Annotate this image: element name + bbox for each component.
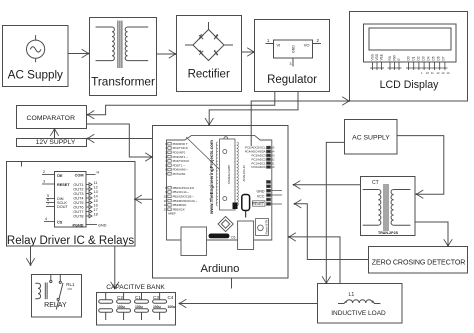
- wire Relay Driver to CAPACITIVE BANK (down arrow): [111, 246, 119, 289]
- svg-text:OUT2: OUT2: [73, 188, 83, 192]
- arduino crystal: [218, 216, 233, 231]
- wire COMPARATOR to Arduino: [87, 124, 153, 161]
- svg-text:AC Supply: AC Supply: [8, 69, 63, 82]
- current transformer CT symbol: [363, 184, 411, 231]
- svg-text:C1: C1: [135, 295, 141, 300]
- svg-text:PGND: PGND: [73, 224, 84, 228]
- capacitor C1: [99, 293, 113, 321]
- svg-text:PD7/AIN1: PD7/AIN1: [173, 172, 186, 176]
- arduino reset button: [256, 219, 269, 236]
- svg-text:VEE: VEE: [380, 54, 384, 60]
- svg-text:C2: C2: [117, 295, 123, 300]
- wire Inductive Load to capacitor bank: [179, 299, 318, 307]
- wire Regulator to Arduino (top): [205, 92, 298, 126]
- svg-text:CAPACITIVE BANK: CAPACITIVE BANK: [106, 284, 165, 291]
- wire Relay Driver to RELAY (down arrow): [26, 246, 34, 266]
- svg-text:GND: GND: [98, 224, 107, 228]
- regulator U1 symbol: [266, 38, 322, 67]
- svg-text:Transformer: Transformer: [91, 75, 155, 89]
- svg-text:13: 13: [164, 207, 168, 211]
- svg-text:C6: C6: [231, 236, 235, 240]
- block Regulator: [255, 20, 330, 92]
- arduino left pin labels: [164, 142, 198, 216]
- svg-text:100u: 100u: [168, 305, 176, 309]
- block ZERO CROSING DETECTOR: [369, 247, 468, 274]
- svg-text:16: 16: [94, 204, 98, 208]
- block capacitor bank: [97, 293, 176, 326]
- arduino electrolytic capacitor: [242, 195, 250, 218]
- svg-text:12: 12: [94, 186, 98, 190]
- arduino analog header: [267, 146, 271, 168]
- svg-text:INDUCTIVE LOAD: INDUCTIVE LOAD: [331, 310, 386, 317]
- svg-text:7: 7: [47, 202, 49, 206]
- svg-text:15: 15: [94, 199, 98, 203]
- svg-text:C3: C3: [153, 295, 159, 300]
- svg-text:H: H: [97, 171, 100, 175]
- svg-text:A3: A3: [271, 154, 275, 158]
- svg-text:OUT8: OUT8: [73, 215, 83, 219]
- svg-text:DOUT: DOUT: [57, 205, 68, 209]
- wire Transformer to Rectifier: [157, 50, 177, 58]
- svg-text:D0: D0: [407, 56, 411, 60]
- svg-text:VO: VO: [304, 43, 310, 48]
- svg-text:COMPARATOR: COMPARATOR: [27, 115, 76, 122]
- wire AC Supply to Transformer: [68, 49, 89, 57]
- svg-text:A2: A2: [271, 157, 275, 161]
- svg-text:D7: D7: [442, 56, 446, 60]
- block AC Supply: [3, 26, 69, 87]
- wire 12V SUPPLY to Arduino: [87, 134, 153, 142]
- block Transformer: [90, 18, 157, 96]
- wire CT to Arduino: [293, 181, 361, 189]
- transformer T1 symbol: [96, 21, 149, 68]
- block Rectifier: [177, 16, 242, 92]
- svg-text:RESET: RESET: [252, 202, 265, 206]
- wire ZERO CROSING DETECTOR to Arduino: [294, 200, 369, 260]
- svg-text:GND: GND: [292, 45, 296, 53]
- svg-text:11: 11: [94, 181, 98, 185]
- wire Inductive Load to Arduino: [288, 233, 340, 284]
- wire AC SUPPLY to CT: [397, 136, 444, 199]
- svg-text:CS: CS: [57, 221, 63, 225]
- arduino black pill capacitor: [209, 234, 236, 240]
- svg-text:100u: 100u: [117, 305, 125, 309]
- svg-text:www.TheEngineeringProjects.com: www.TheEngineeringProjects.com: [209, 140, 214, 215]
- diode bridge BR1 symbol: [185, 22, 233, 61]
- svg-text:LCD Display: LCD Display: [380, 79, 440, 91]
- block 12V SUPPLY: [17, 139, 87, 147]
- label C4: [168, 295, 176, 309]
- block Relay Driver IC & Relays: [7, 162, 136, 248]
- arduino power jack: [238, 221, 254, 250]
- block COMPARATOR: [17, 106, 87, 129]
- svg-text:Reset BTN: Reset BTN: [265, 220, 269, 235]
- svg-text:OUT3: OUT3: [73, 192, 83, 196]
- svg-text:3: 3: [43, 180, 45, 184]
- svg-text:GND: GND: [257, 189, 265, 193]
- svg-text:D3: D3: [422, 56, 426, 60]
- svg-text:12V SUPPLY: 12V SUPPLY: [36, 139, 76, 146]
- svg-text:ANALOG IN: ANALOG IN: [242, 165, 246, 181]
- svg-text:OUT6: OUT6: [73, 206, 83, 210]
- svg-text:TRAN-2P2S: TRAN-2P2S: [378, 231, 399, 235]
- wire AC SUPPLY to Inductive Load: [322, 142, 344, 284]
- svg-text:AC SUPPLY: AC SUPPLY: [352, 135, 390, 142]
- svg-text:4: 4: [45, 217, 47, 221]
- capacitor C2: [117, 293, 131, 321]
- svg-text:D6: D6: [437, 56, 441, 60]
- arduino board outline: [167, 135, 272, 240]
- svg-text:14: 14: [94, 195, 98, 199]
- arduino power header: [267, 181, 283, 206]
- arduino small black part: [233, 203, 238, 210]
- svg-text:RS: RS: [388, 56, 392, 60]
- arduino USB connector: [181, 227, 207, 256]
- svg-text:Regulator: Regulator: [267, 74, 317, 86]
- svg-text:A5: A5: [271, 146, 275, 150]
- svg-text:RELAY: RELAY: [44, 302, 67, 309]
- svg-text:VDD: VDD: [375, 53, 379, 60]
- svg-text:ZERO CROSING DETECTOR: ZERO CROSING DETECTOR: [372, 259, 466, 267]
- wire Rectifier to Regulator: [242, 48, 255, 56]
- svg-text:ATMEGA328P: ATMEGA328P: [227, 165, 231, 184]
- capacitor C4: [153, 293, 167, 321]
- svg-text:A1: A1: [271, 161, 275, 165]
- block INDUCTIVE LOAD: [318, 284, 403, 324]
- wire Arduino to LCD Display: [251, 97, 350, 146]
- svg-text:CN: CN: [68, 287, 72, 291]
- svg-text:C4: C4: [168, 295, 174, 300]
- wire inside arduino (diagonal): [186, 137, 220, 170]
- svg-text:D2: D2: [417, 56, 421, 60]
- svg-text:OUT1: OUT1: [73, 183, 83, 187]
- svg-text:2: 2: [43, 170, 45, 174]
- svg-text:D4: D4: [427, 56, 431, 60]
- svg-text:D5: D5: [432, 56, 436, 60]
- svg-text:L1: L1: [349, 292, 355, 298]
- svg-text:VI: VI: [277, 43, 281, 48]
- capacitor C3: [135, 293, 149, 321]
- svg-text:AREF: AREF: [168, 212, 176, 216]
- svg-text:D1: D1: [412, 56, 416, 60]
- svg-text:Ardiuno: Ardiuno: [201, 263, 240, 275]
- svg-text:RESET: RESET: [57, 183, 70, 187]
- svg-text:VCC: VCC: [257, 194, 265, 198]
- block LCD Display: [350, 12, 468, 102]
- svg-text:E: E: [397, 58, 401, 60]
- svg-text:17: 17: [94, 208, 98, 212]
- svg-text:18: 18: [94, 213, 98, 217]
- wire stub below Arduino: [231, 278, 233, 289]
- svg-text:OUT4: OUT4: [73, 197, 83, 201]
- block CT: [361, 177, 416, 236]
- AC source symbol V1: [26, 35, 44, 62]
- svg-text:PC0/ADC0: PC0/ADC0: [251, 165, 266, 169]
- svg-text:CT: CT: [372, 180, 379, 186]
- inductor L1 symbol: [338, 292, 380, 304]
- relay driver IC U2 symbol: [42, 170, 107, 228]
- block AC SUPPLY (right): [345, 120, 398, 155]
- svg-text:COM: COM: [75, 174, 84, 178]
- svg-text:A4: A4: [271, 150, 275, 154]
- wire 12V SUPPLY to COMPARATOR: [50, 128, 58, 138]
- svg-text:100u: 100u: [135, 305, 143, 309]
- svg-text:VSS: VSS: [371, 54, 375, 60]
- svg-text:100u: 100u: [153, 305, 161, 309]
- arduino left pin header: [168, 142, 171, 210]
- relay RL1 symbol: [35, 275, 75, 310]
- svg-text:Rectifier: Rectifier: [188, 69, 230, 81]
- svg-text:OUT5: OUT5: [73, 201, 83, 205]
- svg-text:A0: A0: [271, 165, 275, 169]
- svg-text:OUT7: OUT7: [73, 210, 83, 214]
- block Ardiuno: [153, 126, 289, 279]
- svg-text:RW: RW: [393, 55, 397, 60]
- wire CT to ZERO CROSING DETECTOR: [415, 222, 452, 247]
- arduino MCU ATmega328: [216, 139, 238, 210]
- wire Arduino to Relay Driver: [134, 195, 152, 203]
- svg-text:Relay Driver IC & Relays: Relay Driver IC & Relays: [7, 235, 134, 247]
- block RELAY: [32, 275, 82, 318]
- svg-text:OE: OE: [57, 174, 63, 178]
- LCD module LCD1 symbol: [364, 24, 457, 75]
- svg-text:13: 13: [94, 190, 98, 194]
- svg-text:3: 3: [290, 62, 292, 66]
- wire Regulator to COMPARATOR: [87, 92, 275, 119]
